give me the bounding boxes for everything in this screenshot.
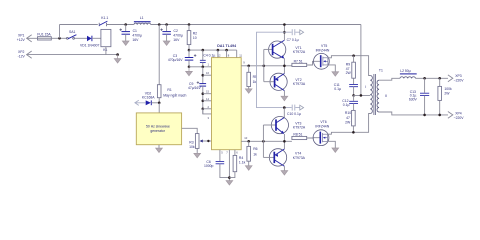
diode VD2 [142,91,159,105]
node (C4 tap) [202,49,205,52]
svg-text:FU1 15A: FU1 15A [37,32,51,36]
svg-text:-12V: -12V [18,54,26,58]
wire (pin2 stub) [203,108,212,110]
svg-text:1.1k: 1.1k [239,161,246,165]
resistor R1 [157,25,186,103]
svg-text:+12V: +12V [17,38,26,42]
wire [75,37,88,39]
svg-text:generator: generator [150,129,165,133]
svg-text:C2: C2 [174,29,178,33]
ground [186,67,193,76]
node (drain wire / R10) [352,131,355,134]
capacitor C11 [334,78,358,95]
wire (top +12 rail) [60,24,98,26]
node (Vcc rail / R2) [188,49,191,52]
wire (emitters) [283,58,285,73]
svg-text:R8 51: R8 51 [293,132,302,136]
svg-text:T1: T1 [379,68,383,72]
node (C13 bottom) [423,114,426,117]
wire (pin15 stub) [203,93,212,95]
svg-text:II: II [385,94,387,98]
svg-text:4700µ: 4700µ [132,34,142,38]
node (emitter/rail) [283,65,286,68]
ground [332,72,339,76]
node (VT1/VT2 base tap) [263,65,266,68]
node (R5 tap) [247,65,250,68]
node (pin14 tap) [202,100,205,103]
capacitor C9 [188,81,206,114]
op-amp U1 / IC DA1 TL494 [212,44,242,150]
wire (pin14 stub) [203,100,212,102]
svg-text:L1: L1 [140,16,144,20]
wire (VT3 collector) [283,108,285,118]
svg-text:10: 10 [193,36,197,40]
capacitor C10 (snubber link) [284,105,303,117]
wire (VT1 collector) [283,25,285,41]
wire (Vcc rail) [189,49,237,51]
svg-text:I: I [365,85,366,89]
transistor VT4 [263,149,305,167]
transistor VT3 [263,117,305,134]
svg-text:2W: 2W [444,92,450,96]
ground [163,41,170,45]
svg-text:R1: R1 [167,88,171,92]
node (center tap / snubber) [352,94,355,97]
transistor VT1 [264,40,306,58]
svg-text:C7 0.1µ: C7 0.1µ [287,38,299,42]
svg-text:R7 51: R7 51 [294,60,303,64]
node (R11 bottom) [438,114,441,117]
svg-text:10: 10 [244,136,247,140]
IC bottom pin 7 (gnd) [226,150,229,181]
node (R1 feed tap) [158,23,161,26]
resistor R6 [247,141,258,166]
ground [332,148,339,152]
svg-text:50 Hz sinewave: 50 Hz sinewave [146,124,170,128]
svg-text:R3: R3 [189,141,193,145]
wire [151,24,361,26]
wire (VT6 drain) [328,114,371,135]
svg-text:0.1µ: 0.1µ [334,87,341,91]
node (R11 top) [438,77,441,80]
resistor R5 [247,66,257,89]
svg-text:1000p: 1000p [204,164,214,168]
svg-text:100k: 100k [444,87,452,91]
IC bottom pin 5 / capacitor C6 [204,150,229,178]
svg-text:2W: 2W [346,71,352,75]
inductor L1 [134,16,151,25]
node (wiper) [207,140,209,142]
svg-text:DA1 TL494: DA1 TL494 [217,44,236,48]
svg-text:0.1µ: 0.1µ [343,103,350,107]
relay coil K1 [101,29,111,54]
node (emitter/rail) [283,140,286,143]
resistor R11 [438,78,452,115]
svg-text:14: 14 [206,97,209,101]
resistor R8 [292,132,320,139]
wire (pin 9 rail) [241,65,292,67]
svg-text:KT972A: KT972A [293,126,306,130]
ground [245,166,252,170]
capacitor C12 [342,95,358,110]
svg-text:47: 47 [346,116,350,120]
svg-text:XP4: XP4 [455,111,462,115]
node (C7 link) [283,31,286,34]
node (pin2 tap) [202,108,205,111]
wire (pin 16 stub) [203,74,212,76]
wire [158,103,160,113]
capacitor C3 [168,50,196,67]
node (C3 bottom / gnd wire) [188,66,191,69]
svg-text:K1: K1 [103,48,107,52]
ground [114,55,121,63]
svg-text:VD1 1N4007: VD1 1N4007 [80,44,100,48]
node (C13 top) [423,77,426,80]
node (gnd junction) [228,176,231,179]
capacitor C4 [200,50,215,67]
transistor VT2 [264,73,306,90]
svg-text:C3: C3 [173,54,177,58]
node (collector/+12) [283,23,286,26]
node (left bus pin1) [202,66,205,69]
inductor L2 [379,69,417,80]
svg-text:47µ/16V: 47µ/16V [188,86,201,90]
svg-text:KT973A: KT973A [293,156,306,160]
svg-text:Máy ngắt mạch: Máy ngắt mạch [163,93,186,98]
node (pin8 tap) [225,49,228,52]
relay contact K1.1 [99,16,108,26]
resistor R9 [346,56,356,78]
svg-text:L2 50µ: L2 50µ [400,69,410,73]
ground [245,89,252,93]
connector XP1 [17,34,38,42]
wire (+12 to center tap) [354,25,371,96]
potentiometer R3 [189,134,211,154]
svg-text:470µ/16V: 470µ/16V [168,58,183,62]
svg-text:16: 16 [206,71,209,75]
svg-text:~220V: ~220V [454,116,465,120]
connector XP4 [448,111,464,120]
svg-text:C10 0.1µ: C10 0.1µ [287,112,301,116]
node (R6 tap) [247,140,250,143]
svg-text:R10: R10 [345,111,351,115]
switch SA1 [67,30,77,39]
ground [122,41,129,45]
transformer T1 [365,68,387,115]
wire (VT6 source to gnd) [328,141,336,148]
svg-text:SA1: SA1 [69,30,76,34]
wire (pin 10 rail) [241,140,292,142]
transistor VT6 (MOSFET) [313,120,330,146]
svg-text:K1.1: K1.1 [101,16,108,20]
wire (pin3 corner) [203,109,212,114]
node (VD2/R1/generator) [158,102,161,105]
ground [156,148,163,152]
svg-text:630V: 630V [409,97,418,101]
wire [107,24,134,26]
wire (emitters) [283,134,285,149]
capacitor C2 [160,25,182,43]
svg-text:KC168A: KC168A [142,96,155,100]
capacitor C1 [120,25,142,43]
node (C1 tap) [124,23,127,26]
net arrow (gen supply, points left) [135,100,146,105]
node (R9 tap) [352,54,355,57]
wire (output bottom) [379,112,448,115]
svg-text:1k: 1k [253,152,257,156]
capacitor C13 [409,78,429,115]
ground [281,96,288,100]
svg-text:12: 12 [218,53,221,57]
capacitor C7 (snubber link) [284,29,303,42]
IC bottom pin 6 / resistor R4 [229,150,245,178]
svg-text:IRFZ44N: IRFZ44N [316,48,330,52]
svg-text:~220V: ~220V [454,78,465,82]
generator block (50 Hz) [136,113,181,148]
wire (output top) [416,77,449,79]
wire [59,25,61,39]
wire (pin stubs 12 8 11) [218,50,237,58]
wire (VT4 collector to gnd) [283,166,285,170]
svg-text:R4: R4 [239,156,243,160]
connector XP2 [18,50,118,58]
wire (VT2 collector to gnd) [283,91,285,97]
wire (base link) [262,125,264,157]
connector XP3 [448,74,464,82]
wire (+12 link down) [257,32,285,107]
svg-text:15: 15 [206,90,209,94]
node (pin16 tap) [202,74,205,77]
svg-text:C4 0.1µ: C4 0.1µ [203,54,215,58]
svg-text:KT973A: KT973A [293,82,306,86]
svg-text:1k: 1k [253,80,257,84]
node (C10 link) [283,106,286,109]
resistor R10 [345,110,355,132]
transistor VT5 (MOSFET) [314,44,330,69]
wire (left bus) [202,67,204,84]
ground [281,171,288,175]
wire (gen out) [182,128,198,133]
svg-text:KT972A: KT972A [293,50,306,54]
fuse FU1 [37,32,51,40]
wire (VT5 source to gnd) [328,65,335,72]
wire [51,37,66,39]
node (XP2/ground junction) [116,53,119,56]
svg-text:C1: C1 [133,29,137,33]
node (pin15 tap) [202,92,205,95]
svg-text:10k: 10k [189,145,195,149]
node A (+12V junction) [58,37,61,40]
node (C2 tap) [165,23,168,26]
node (R2 tap) [188,23,191,26]
svg-text:XP3: XP3 [455,74,462,78]
node (VT3/VT4 base tap) [262,140,265,143]
svg-text:4700µ: 4700µ [173,34,183,38]
svg-text:2W: 2W [345,120,351,124]
resistor R7 [292,60,320,67]
ground [226,181,233,185]
svg-text:16V: 16V [173,38,180,42]
wire (VT5 drain) [328,56,370,76]
node (+12 center) [360,94,363,97]
wire (gnd wire to pin 1) [189,66,212,68]
diode VD1 [80,36,101,48]
svg-text:IRFZ44N: IRFZ44N [315,124,329,128]
svg-text:16V: 16V [132,38,139,42]
svg-text:R6: R6 [253,147,257,151]
resistor R2 [187,25,197,51]
wire (base link) [263,49,265,81]
node (pin12 tap) [217,49,220,52]
ground [194,153,201,157]
